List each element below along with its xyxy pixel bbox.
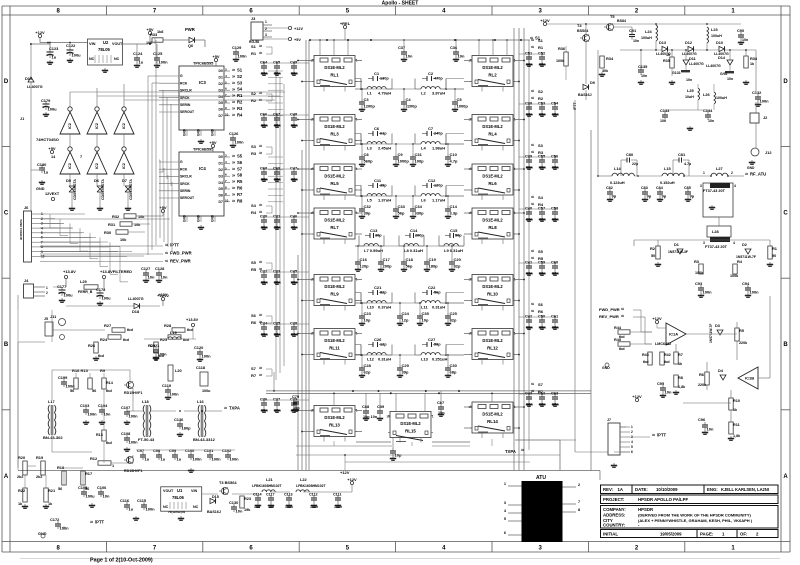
svg-text:3.3p: 3.3p — [450, 211, 459, 216]
svg-text:L25: L25 — [687, 88, 695, 93]
svg-text:0.251uH: 0.251uH — [432, 357, 447, 362]
svg-text:10n: 10n — [708, 119, 714, 123]
svg-text:82p: 82p — [450, 318, 457, 323]
svg-text:C22: C22 — [428, 285, 436, 290]
svg-text:»: » — [259, 144, 262, 150]
svg-text:C4: C4 — [406, 97, 412, 102]
svg-text:C128: C128 — [155, 266, 165, 271]
svg-text:S6: S6 — [538, 302, 544, 307]
svg-text:1000p: 1000p — [457, 104, 469, 109]
svg-text:+5V: +5V — [212, 54, 220, 59]
svg-text:C120: C120 — [194, 345, 203, 350]
svg-text:/PTT: /PTT — [95, 520, 105, 525]
svg-text:10k: 10k — [134, 223, 141, 227]
svg-text:TXPA: TXPA — [229, 406, 240, 411]
svg-text:9p: 9p — [662, 194, 667, 199]
svg-text:100k: 100k — [730, 274, 739, 278]
svg-text:DS1E-ML2: DS1E-ML2 — [482, 124, 503, 129]
svg-text:C18: C18 — [406, 257, 414, 262]
svg-text:tbd: tbd — [183, 338, 190, 342]
svg-text:330p: 330p — [415, 211, 425, 216]
svg-text:4: 4 — [631, 440, 633, 444]
svg-text:R6: R6 — [699, 372, 705, 377]
svg-text:»: » — [232, 198, 235, 204]
svg-text:L6: L6 — [421, 198, 426, 203]
svg-text:220k: 220k — [739, 341, 748, 345]
svg-text:CDSC09GTA: CDSC09GTA — [73, 179, 77, 200]
svg-text:8: 8 — [578, 508, 580, 512]
svg-text:10n: 10n — [274, 280, 281, 285]
svg-text:L1: L1 — [367, 91, 372, 96]
svg-text:100n: 100n — [170, 392, 180, 397]
svg-text:1A: 1A — [618, 487, 624, 492]
svg-text:DS1E-ML2: DS1E-ML2 — [324, 218, 345, 223]
svg-text:74HCT04SO: 74HCT04SO — [36, 137, 59, 142]
svg-text:C180: C180 — [37, 162, 46, 167]
svg-text:0.123uH: 0.123uH — [610, 181, 625, 185]
svg-text:tbd: tbd — [187, 328, 194, 332]
svg-text:200p: 200p — [383, 264, 393, 269]
svg-text:2: 2 — [265, 27, 267, 31]
svg-text:R7: R7 — [237, 192, 243, 197]
svg-text:C17: C17 — [383, 257, 391, 262]
svg-text:C89: C89 — [377, 404, 385, 409]
svg-text:120p: 120p — [434, 184, 443, 188]
svg-text:LL4007G: LL4007G — [682, 52, 697, 56]
svg-text:S3: S3 — [538, 143, 544, 148]
svg-text:FWD_PWR: FWD_PWR — [170, 251, 192, 256]
svg-text:L12: L12 — [367, 357, 375, 362]
svg-text:G: G — [180, 74, 183, 78]
svg-text:tbd: tbd — [619, 347, 625, 351]
svg-text:»: » — [259, 44, 262, 50]
svg-text:DS1E-ML2: DS1E-ML2 — [482, 338, 503, 343]
svg-text:R11: R11 — [733, 423, 740, 427]
svg-text:240p: 240p — [434, 132, 443, 136]
svg-text:100k: 100k — [695, 271, 704, 275]
svg-text:10k: 10k — [138, 215, 145, 219]
svg-text:L13: L13 — [421, 357, 429, 362]
svg-text:+REL: +REL — [340, 21, 351, 26]
svg-text:SEROUT: SEROUT — [180, 196, 195, 200]
svg-text:R44: R44 — [614, 326, 622, 330]
svg-text:10n: 10n — [539, 112, 546, 117]
svg-text:C32: C32 — [364, 204, 372, 209]
svg-text:S3: S3 — [251, 144, 257, 149]
svg-text:R6: R6 — [237, 186, 243, 191]
svg-text:39p: 39p — [364, 211, 371, 216]
svg-text:J5: J5 — [44, 317, 48, 321]
svg-text:DS1E-ML2: DS1E-ML2 — [482, 218, 503, 223]
svg-text:19k: 19k — [244, 508, 251, 512]
svg-text:SRCK: SRCK — [180, 182, 190, 186]
svg-text:RL12: RL12 — [487, 346, 498, 351]
svg-text:C95: C95 — [657, 381, 665, 386]
svg-text:C3: C3 — [364, 97, 370, 102]
svg-text:»: » — [652, 433, 655, 439]
svg-text:C122: C122 — [66, 43, 76, 48]
svg-text:C30: C30 — [450, 363, 458, 368]
svg-text:10n: 10n — [727, 77, 733, 81]
svg-text:tbd: tbd — [127, 328, 134, 332]
svg-text:19/05/2009: 19/05/2009 — [660, 532, 682, 537]
svg-text:LL4007G: LL4007G — [706, 64, 721, 68]
svg-text:180p: 180p — [429, 264, 439, 269]
svg-text:L28: L28 — [712, 229, 720, 234]
svg-text:L24: L24 — [645, 29, 653, 34]
svg-text:C101: C101 — [204, 448, 214, 453]
svg-text:78L05: 78L05 — [98, 47, 111, 52]
svg-text:C97: C97 — [137, 448, 144, 453]
svg-text:100n: 100n — [146, 507, 156, 512]
svg-text:LFBK1608HM102T: LFBK1608HM102T — [252, 484, 283, 488]
svg-text:10n: 10n — [148, 275, 155, 280]
svg-text:«: « — [531, 382, 534, 388]
svg-text:+12V: +12V — [632, 394, 642, 399]
svg-text:«: « — [531, 150, 534, 156]
svg-text:10n: 10n — [406, 54, 413, 59]
svg-text:S4: S4 — [538, 195, 544, 200]
svg-text:SRCK: SRCK — [180, 96, 190, 100]
svg-text:100n: 100n — [193, 457, 203, 462]
svg-text:D6: D6 — [219, 194, 223, 198]
svg-text:C25: C25 — [450, 311, 458, 316]
svg-text:C116: C116 — [120, 498, 130, 503]
svg-text:RL8: RL8 — [488, 225, 497, 230]
svg-text:50p: 50p — [455, 234, 462, 238]
svg-text:22p: 22p — [632, 162, 639, 166]
svg-text:100n: 100n — [238, 54, 248, 59]
svg-text:10n: 10n — [236, 509, 243, 514]
svg-text:L2: L2 — [421, 91, 426, 96]
svg-text:+13.8V: +13.8V — [63, 269, 76, 274]
svg-text:10n: 10n — [552, 271, 559, 276]
svg-text:4.7p: 4.7p — [450, 159, 459, 164]
svg-text:C26: C26 — [374, 337, 382, 342]
svg-text:S2: S2 — [237, 74, 243, 79]
svg-text:RL14: RL14 — [487, 419, 498, 424]
svg-text:C21: C21 — [374, 285, 382, 290]
svg-text:R1: R1 — [251, 51, 257, 56]
svg-text:TPIC6B595: TPIC6B595 — [193, 147, 214, 152]
svg-text:L9 0.31uH: L9 0.31uH — [444, 248, 463, 253]
svg-text:R2: R2 — [237, 100, 243, 105]
svg-text:«: « — [165, 251, 168, 257]
svg-text:C100: C100 — [185, 448, 194, 453]
svg-text:D: D — [783, 79, 788, 85]
svg-text:100n: 100n — [60, 526, 70, 531]
svg-text:100uH: 100uH — [641, 36, 652, 40]
svg-text:SEROUT: SEROUT — [180, 110, 195, 114]
svg-text:KJELL KARLSEN, LA2NI: KJELL KARLSEN, LA2NI — [721, 487, 769, 492]
svg-text:C14: C14 — [450, 204, 458, 209]
svg-text:1u: 1u — [161, 457, 166, 462]
svg-text:1k8: 1k8 — [157, 30, 163, 34]
svg-text:470p: 470p — [434, 77, 443, 81]
svg-text:VIN: VIN — [191, 489, 197, 493]
svg-text:12VEXT: 12VEXT — [45, 192, 60, 196]
svg-text:30p: 30p — [375, 234, 382, 238]
svg-text:D3: D3 — [715, 324, 720, 328]
svg-text:10n: 10n — [261, 71, 268, 76]
svg-text:10n: 10n — [291, 123, 298, 128]
svg-text:10n: 10n — [539, 402, 546, 407]
svg-text:/PTT: /PTT — [170, 243, 180, 248]
svg-text:10n: 10n — [291, 225, 298, 230]
svg-text:1u: 1u — [177, 457, 182, 462]
svg-text:R30: R30 — [104, 230, 111, 235]
svg-text:»: » — [259, 51, 262, 57]
svg-text:S2: S2 — [251, 91, 257, 96]
svg-text:DS1E-ML2: DS1E-ML2 — [324, 338, 345, 343]
svg-text:100n: 100n — [159, 60, 169, 65]
svg-text:C34: C34 — [415, 204, 423, 209]
svg-text:«: « — [531, 96, 534, 102]
svg-text:»: » — [259, 151, 262, 157]
svg-text:C87: C87 — [437, 400, 444, 405]
svg-text:C127: C127 — [141, 266, 150, 271]
svg-text:+5V: +5V — [48, 146, 56, 151]
svg-text:100n: 100n — [230, 457, 240, 462]
svg-text:R12: R12 — [90, 456, 98, 461]
svg-text:C109: C109 — [58, 375, 68, 380]
svg-text:R31: R31 — [108, 222, 116, 227]
svg-text:DATE:: DATE: — [635, 487, 648, 492]
svg-text:100uH: 100uH — [711, 34, 722, 38]
svg-text:100n: 100n — [750, 290, 760, 295]
svg-text:R4: R4 — [538, 202, 544, 207]
svg-text:C130: C130 — [229, 500, 238, 505]
svg-text:D2: D2 — [219, 82, 223, 86]
svg-text:VOUT: VOUT — [112, 42, 123, 46]
svg-text:10n: 10n — [261, 280, 268, 285]
svg-text:+12V: +12V — [340, 470, 350, 475]
svg-text:10n: 10n — [665, 390, 672, 395]
svg-text:0.31uH: 0.31uH — [378, 357, 391, 362]
svg-text:OF:: OF: — [740, 532, 748, 537]
svg-text:D6: D6 — [219, 108, 223, 112]
svg-text:10n 10n: 10n 10n — [363, 415, 378, 419]
svg-text:10n: 10n — [103, 494, 110, 499]
svg-text:4.79uH: 4.79uH — [378, 91, 391, 96]
svg-text:RL11: RL11 — [329, 346, 340, 351]
svg-text:«: « — [531, 249, 534, 255]
svg-text:DS1E-ML2: DS1E-ML2 — [482, 65, 503, 70]
svg-text:12p: 12p — [402, 318, 409, 323]
svg-text:/PTT: /PTT — [657, 433, 667, 438]
svg-text:«: « — [621, 314, 624, 320]
svg-text:L23: L23 — [711, 27, 719, 32]
svg-text:»: » — [745, 172, 748, 178]
svg-text:10n: 10n — [641, 74, 647, 78]
svg-text:10n: 10n — [539, 271, 546, 276]
svg-text:R8: R8 — [678, 376, 683, 380]
svg-text:C117: C117 — [266, 493, 275, 497]
svg-text:R4: R4 — [237, 112, 243, 117]
svg-text:6: 6 — [631, 450, 633, 454]
svg-text:5: 5 — [504, 517, 506, 521]
svg-text:L16: L16 — [197, 399, 205, 404]
svg-text:10n: 10n — [274, 177, 281, 182]
svg-text:56: 56 — [58, 487, 62, 491]
svg-text:82p: 82p — [454, 264, 461, 269]
svg-text:»: » — [232, 160, 235, 166]
svg-text:62p: 62p — [364, 370, 371, 375]
svg-text:C118: C118 — [196, 365, 206, 370]
svg-text:L21: L21 — [266, 477, 274, 482]
svg-text:L15: L15 — [664, 166, 672, 171]
svg-text:»: » — [259, 313, 262, 319]
svg-text:C98: C98 — [153, 448, 161, 453]
svg-text:DS1E-ML2: DS1E-ML2 — [400, 421, 421, 426]
svg-text:C107: C107 — [121, 405, 130, 410]
svg-text:R36: R36 — [558, 46, 566, 51]
svg-text:J11: J11 — [50, 314, 57, 319]
svg-text:59p: 59p — [434, 343, 441, 347]
svg-text:100n: 100n — [334, 505, 342, 509]
svg-text:S3: S3 — [237, 80, 243, 85]
svg-text:L8 0.31uH: L8 0.31uH — [404, 248, 423, 253]
svg-text:L7 0.59uH: L7 0.59uH — [364, 248, 383, 253]
svg-text:»: » — [232, 166, 235, 172]
svg-text:10n: 10n — [552, 325, 559, 330]
svg-text:C36: C36 — [450, 45, 458, 50]
svg-text:10k: 10k — [120, 238, 127, 242]
svg-text:R34: R34 — [606, 56, 614, 61]
svg-text:DS1E-ML2: DS1E-ML2 — [482, 284, 503, 289]
svg-text:S7: S7 — [538, 382, 544, 387]
svg-text:4: 4 — [733, 241, 735, 245]
svg-text:56: 56 — [92, 389, 96, 393]
svg-text:10p: 10p — [422, 318, 429, 323]
svg-text:180p: 180p — [182, 426, 192, 431]
svg-text:U1: U1 — [177, 488, 183, 493]
svg-text:G: G — [180, 160, 183, 164]
svg-text:R1: R1 — [772, 246, 778, 251]
svg-text:10n: 10n — [261, 332, 268, 337]
svg-text:L4: L4 — [421, 146, 426, 151]
svg-text:IC2: IC2 — [95, 163, 99, 169]
svg-text:D18: D18 — [132, 309, 140, 314]
svg-text:3: 3 — [703, 241, 705, 245]
svg-text:3.87uH: 3.87uH — [432, 91, 445, 96]
svg-text:R25: R25 — [160, 337, 168, 342]
svg-text:+5V: +5V — [209, 140, 217, 145]
svg-text:C179: C179 — [41, 98, 51, 103]
svg-text:R8: R8 — [237, 198, 243, 203]
svg-text:10n: 10n — [552, 112, 559, 117]
svg-text:RL2: RL2 — [488, 73, 497, 78]
svg-text:«: « — [531, 89, 534, 95]
svg-text:L26: L26 — [703, 92, 711, 97]
svg-text:LFBK1608HM102T: LFBK1608HM102T — [296, 484, 327, 488]
svg-text:Q6: Q6 — [188, 44, 193, 48]
svg-text:100n: 100n — [202, 354, 212, 359]
svg-text:C15: C15 — [450, 228, 458, 233]
svg-text:C8: C8 — [364, 152, 370, 157]
svg-text:C93: C93 — [695, 281, 703, 286]
svg-text:1: 1 — [631, 425, 633, 429]
svg-text:C135: C135 — [638, 64, 648, 69]
svg-text:R3: R3 — [694, 259, 700, 264]
svg-text:10n: 10n — [274, 408, 281, 413]
svg-text:10n: 10n — [539, 325, 546, 330]
svg-text:130p: 130p — [380, 77, 389, 81]
svg-text:G/92: G/92 — [720, 72, 727, 76]
svg-text:100n: 100n — [158, 352, 168, 357]
svg-text:Apollo - SHEET: Apollo - SHEET — [382, 0, 419, 6]
svg-text:S5: S5 — [251, 260, 257, 265]
svg-text:D14: D14 — [718, 56, 726, 60]
svg-text:COMPANY:: COMPANY: — [603, 507, 626, 512]
svg-text:C132: C132 — [752, 90, 762, 95]
svg-text:1: 1 — [265, 20, 267, 24]
svg-text:»: » — [259, 366, 262, 372]
svg-text:SERIN: SERIN — [180, 189, 191, 193]
svg-text:tbd: tbd — [98, 354, 105, 358]
svg-text:B: B — [783, 342, 788, 348]
svg-text:GND: GND — [36, 187, 45, 191]
svg-text:«: « — [531, 302, 534, 308]
svg-text:C114: C114 — [253, 493, 263, 497]
svg-text:560p: 560p — [364, 159, 374, 164]
svg-text:L20: L20 — [175, 368, 182, 373]
svg-text:REV_PWR: REV_PWR — [599, 314, 619, 319]
svg-text:C13: C13 — [370, 228, 378, 233]
svg-text:D1: D1 — [674, 243, 679, 247]
svg-text:NC: NC — [114, 57, 120, 61]
svg-text:D1: D1 — [219, 162, 223, 166]
svg-text:C9: C9 — [398, 152, 404, 157]
svg-text:R38: R38 — [750, 56, 758, 61]
svg-text:R28: R28 — [164, 323, 172, 328]
svg-text:100u: 100u — [102, 296, 112, 301]
svg-text:S8: S8 — [237, 173, 243, 178]
svg-text:10n: 10n — [539, 62, 546, 67]
svg-text:«: « — [531, 309, 534, 315]
svg-text:10n: 10n — [526, 165, 533, 170]
svg-text:10n: 10n — [261, 225, 268, 230]
svg-text:»: » — [232, 74, 235, 80]
svg-text:1,8k: 1,8k — [678, 385, 686, 389]
svg-text:D: D — [4, 79, 9, 85]
svg-text:C16: C16 — [360, 257, 368, 262]
svg-text:10n: 10n — [742, 38, 748, 42]
svg-text:61p: 61p — [380, 132, 387, 136]
svg-text:tbd: tbd — [106, 389, 112, 393]
svg-text:»: » — [232, 68, 235, 74]
svg-text:10n: 10n — [104, 412, 111, 417]
svg-text:»: » — [259, 203, 262, 209]
svg-text:10n: 10n — [274, 225, 281, 230]
svg-text:C31: C31 — [415, 152, 423, 157]
svg-text:C113: C113 — [284, 493, 293, 497]
svg-text:10: 10 — [225, 112, 229, 116]
svg-text:FT37-43 20T: FT37-43 20T — [703, 189, 726, 193]
svg-text:R16 R15: R16 R15 — [72, 368, 89, 373]
svg-text:C24: C24 — [402, 311, 410, 316]
svg-text:SERIN: SERIN — [180, 103, 191, 107]
svg-text:+12V: +12V — [35, 30, 45, 35]
svg-text:100n: 100n — [129, 440, 139, 445]
svg-text:C105: C105 — [78, 485, 88, 490]
svg-text:100n: 100n — [760, 99, 770, 104]
svg-text:G131: G131 — [672, 71, 681, 75]
svg-text:RCK: RCK — [180, 167, 188, 171]
svg-text:C28: C28 — [364, 363, 372, 368]
svg-text:10: 10 — [225, 198, 229, 202]
svg-text:D5: D5 — [219, 101, 223, 105]
